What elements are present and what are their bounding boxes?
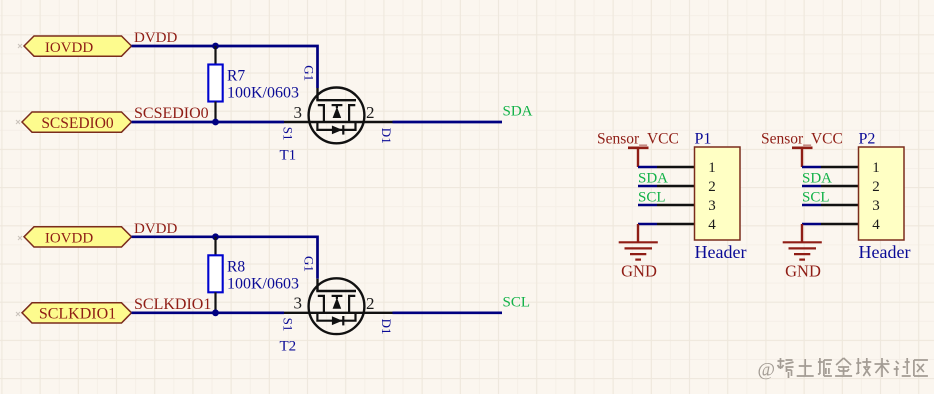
wire SCLKDIO1 to source pin: [132, 311, 285, 314]
transistor T1 center plate and arrow: [332, 104, 343, 106]
junction upper rail / R8: [212, 233, 219, 240]
svg-text:2: 2: [708, 179, 716, 195]
wire stub pin 3 (P1): [638, 204, 657, 206]
wire GND riser (P2): [801, 224, 803, 242]
transistor T2 body-diode cathode bar: [342, 316, 344, 325]
svg-text:100K/0603: 100K/0603: [227, 276, 299, 293]
svg-text:P2: P2: [859, 131, 876, 148]
junction signal row / R8: [212, 309, 219, 316]
pin 4 line (P2): [821, 223, 859, 225]
connector P2 body: [859, 147, 905, 240]
port SCLKDIO1: [22, 303, 132, 323]
connector P1 body: [695, 147, 741, 240]
wire stub pin 4 (P2): [802, 223, 821, 225]
transistor T2 body circle: [309, 278, 365, 334]
transistor T1 source plate: [318, 105, 324, 122]
transistor T2 drain plate: [349, 296, 355, 313]
svg-text:DVDD: DVDD: [134, 221, 177, 237]
wire gate stub (T1): [316, 88, 318, 100]
transistor T2 gate bar: [318, 291, 357, 292]
svg-text:Sensor_VCC: Sensor_VCC: [597, 131, 679, 148]
svg-text:SCL: SCL: [503, 295, 531, 311]
svg-text:S1: S1: [280, 318, 295, 332]
wire gate stub (T2): [316, 279, 318, 291]
power port Sensor_VCC bar (P2): [792, 147, 813, 150]
transistor T1 body circle: [309, 88, 365, 144]
wire stub pin 1 (P1): [638, 166, 657, 168]
resistor R7 body: [208, 65, 222, 102]
watermark: [758, 358, 928, 381]
resistor R7 lead bottom: [214, 102, 216, 123]
junction upper rail / R7: [212, 43, 219, 50]
transistor T1 gate bar: [318, 100, 357, 101]
svg-text:3: 3: [294, 103, 303, 122]
port IOVDD: [24, 227, 132, 247]
pin 2 line (P1): [657, 185, 695, 187]
junction signal row / R7: [212, 119, 219, 126]
svg-text:4: 4: [872, 217, 880, 233]
wire stub pin 3 (P2): [802, 204, 821, 206]
svg-text:IOVDD: IOVDD: [45, 231, 93, 247]
svg-text:GND: GND: [621, 261, 657, 280]
transistor T2 center plate and arrow: [332, 295, 343, 297]
svg-text:P1: P1: [695, 131, 712, 148]
wire GND riser (P1): [637, 224, 639, 242]
pin 4 line (P1): [657, 223, 695, 225]
svg-text:IOVDD: IOVDD: [45, 40, 93, 56]
wire SCSEDIO0 to source pin: [132, 121, 285, 124]
port tip marker top: [18, 44, 22, 48]
svg-text:3: 3: [708, 198, 716, 214]
resistor R7 lead top: [214, 46, 216, 65]
port tip marker row2: [16, 120, 20, 124]
svg-text:Sensor_VCC: Sensor_VCC: [761, 131, 843, 148]
resistor R8 lead top: [214, 237, 216, 256]
svg-text:SDA: SDA: [638, 171, 668, 187]
svg-text:GND: GND: [785, 261, 821, 280]
svg-text:G1: G1: [302, 65, 317, 81]
port tip marker row3: [18, 236, 22, 240]
svg-text:R7: R7: [227, 68, 245, 85]
svg-text:2: 2: [872, 179, 880, 195]
svg-text:Header: Header: [695, 242, 747, 262]
svg-text:3: 3: [294, 294, 303, 313]
svg-text:SCSEDIO0: SCSEDIO0: [41, 115, 114, 132]
pin 3 line (P2): [821, 204, 859, 206]
wire stub pin 2 (P2): [802, 185, 821, 187]
pin 3 line (P1): [657, 204, 695, 206]
svg-text:DVDD: DVDD: [134, 30, 177, 46]
wire DVDD rail (T2): [132, 237, 318, 279]
svg-text:G1: G1: [302, 256, 317, 272]
svg-text:100K/0603: 100K/0603: [227, 85, 299, 102]
svg-text:SCLKDIO1: SCLKDIO1: [134, 296, 211, 313]
transistor T1 drain plate: [349, 105, 355, 122]
svg-text:SCL: SCL: [638, 190, 666, 206]
resistor R8 body: [208, 255, 222, 292]
transistor T2 body-diode anode triangle: [332, 316, 343, 325]
wire DVDD rail (T1): [132, 46, 318, 88]
svg-text:R8: R8: [227, 259, 245, 276]
transistor T2 source plate: [318, 296, 324, 313]
pin 1 line (P1): [657, 166, 695, 168]
resistor R8 lead bottom: [214, 292, 216, 313]
transistor T1 pin line (source-drain row): [284, 121, 393, 123]
svg-text:@: @: [758, 360, 776, 381]
wire stub pin 2 (P1): [638, 185, 657, 187]
svg-text:T1: T1: [280, 148, 297, 164]
transistor T1 body-diode cathode bar: [342, 125, 344, 134]
pin 1 line (P2): [821, 166, 859, 168]
port SCSEDIO0: [22, 112, 132, 132]
wire stub pin 1 (P2): [802, 166, 821, 168]
wire Sensor_VCC riser (P2): [801, 148, 803, 167]
svg-text:SCSEDIO0: SCSEDIO0: [134, 105, 209, 122]
svg-text:2: 2: [366, 103, 375, 122]
svg-text:Header: Header: [859, 242, 911, 262]
transistor T1 body-diode anode triangle: [332, 126, 343, 135]
svg-text:1: 1: [708, 160, 716, 176]
wire drain to SDA: [393, 121, 503, 124]
svg-text:SDA: SDA: [503, 104, 533, 120]
transistor T2 pin line (source-drain row): [284, 312, 393, 314]
transistor T1 body-diode loop: [317, 122, 355, 130]
wire Sensor_VCC riser (P1): [637, 148, 639, 167]
svg-text:2: 2: [366, 294, 375, 313]
transistor T2 body-diode loop: [317, 313, 355, 321]
svg-text:SDA: SDA: [802, 171, 832, 187]
svg-text:D1: D1: [379, 128, 394, 144]
ground symbol (P2): [783, 242, 822, 259]
svg-text:3: 3: [872, 198, 880, 214]
svg-text:1: 1: [872, 160, 880, 176]
svg-text:4: 4: [708, 217, 716, 233]
wire drain to SCL: [393, 311, 503, 314]
wire stub pin 4 (P1): [638, 223, 657, 225]
port tip marker row4: [16, 312, 20, 316]
svg-text:SCLKDIO1: SCLKDIO1: [39, 306, 116, 323]
svg-text:SCL: SCL: [802, 190, 830, 206]
svg-text:S1: S1: [280, 127, 295, 141]
power port Sensor_VCC bar (P1): [628, 147, 649, 150]
svg-text:T2: T2: [280, 338, 297, 354]
svg-text:D1: D1: [379, 319, 394, 335]
pin 2 line (P2): [821, 185, 859, 187]
port IOVDD: [24, 36, 132, 56]
ground symbol (P1): [619, 242, 658, 259]
